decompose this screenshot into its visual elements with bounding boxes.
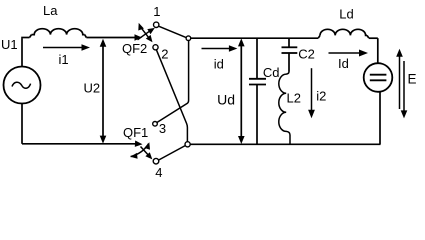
svg-text:3: 3 [159, 121, 166, 136]
svg-text:E: E [408, 72, 417, 87]
svg-text:Id: Id [338, 56, 349, 71]
svg-text:2: 2 [161, 47, 168, 62]
svg-text:QF2: QF2 [122, 41, 147, 56]
svg-text:QF1: QF1 [123, 125, 148, 140]
svg-text:i2: i2 [316, 89, 326, 104]
svg-text:L2: L2 [287, 91, 301, 106]
svg-text:4: 4 [155, 165, 162, 180]
svg-text:i1: i1 [59, 52, 69, 67]
svg-text:La: La [43, 3, 58, 18]
svg-text:C2: C2 [298, 47, 315, 62]
svg-text:id: id [214, 57, 224, 72]
svg-text:Ud: Ud [217, 91, 235, 107]
svg-text:1: 1 [153, 4, 160, 19]
svg-text:Ld: Ld [339, 7, 353, 22]
svg-text:U1: U1 [1, 37, 18, 52]
svg-text:Cd: Cd [263, 65, 280, 80]
svg-text:U2: U2 [84, 80, 101, 95]
